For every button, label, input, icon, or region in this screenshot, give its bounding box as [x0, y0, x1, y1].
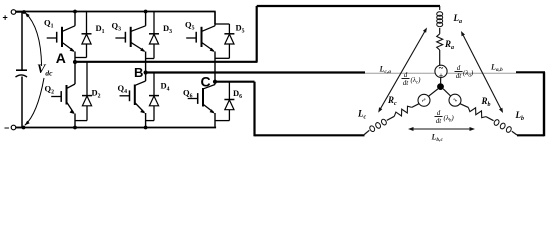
source ec — [418, 94, 430, 106]
resistor Ra — [437, 34, 443, 50]
curved lead to - terminal — [25, 78, 44, 125]
wire Lb end — [512, 131, 517, 135]
diode D6 — [228, 82, 230, 100]
transistor Q1 — [74, 12, 76, 26]
label d/dt lambda_b — [435, 116, 443, 118]
transistor Q5 — [214, 12, 216, 26]
transistor Q4 — [145, 73, 147, 82]
wire eb to Rb — [460, 104, 469, 108]
DC negative terminal — [11, 125, 16, 130]
wire DC link lower — [21, 77, 23, 128]
diode D3 — [153, 12, 155, 34]
wire La to Ra — [439, 28, 441, 34]
svg-text:(λc): (λc) — [411, 76, 422, 85]
wire Lc end — [364, 130, 369, 134]
wire phase B — [146, 71, 365, 73]
diode D5 — [214, 12, 216, 25]
label d/dt lambda_a — [455, 71, 463, 73]
wire ec to Rc — [412, 104, 419, 108]
svg-text:d: d — [437, 109, 441, 117]
top DC rail — [16, 11, 216, 13]
mutual inductance line — [365, 72, 516, 74]
label d/dt lambda_c — [402, 78, 410, 80]
wire top terminal to bus — [16, 11, 24, 13]
transistor Q3 — [145, 12, 147, 26]
node neutral — [437, 83, 444, 90]
DC positive terminal — [11, 10, 16, 15]
svg-text:B: B — [134, 65, 143, 80]
wire neutral to ec — [429, 89, 438, 96]
node B — [144, 70, 148, 74]
inductor La — [437, 12, 443, 16]
diode D2 — [86, 62, 88, 96]
svg-text:A: A — [56, 50, 66, 66]
capacitor Vdc top plate — [16, 69, 27, 71]
wire phase A — [75, 61, 258, 63]
wire Rb to Lb — [486, 117, 494, 121]
transistor Q2 — [74, 62, 76, 84]
curved lead to + terminal — [25, 13, 42, 67]
wire phase B right section — [516, 71, 545, 73]
axis arrow c-a — [381, 32, 425, 109]
diode D1 — [86, 12, 88, 34]
node top rail leg 2 — [144, 10, 148, 14]
wire DC link upper — [21, 12, 23, 70]
svg-text:+: + — [3, 13, 8, 23]
node bottom-left junction — [22, 126, 26, 130]
inductor Lc — [381, 118, 388, 125]
wire to La — [439, 6, 441, 10]
bottom DC rail — [16, 127, 216, 129]
node top-left junction — [22, 10, 26, 14]
wire neutral to eb — [443, 89, 450, 96]
source ea — [435, 65, 447, 77]
wire Ra to ea — [439, 50, 441, 65]
transistor Q6 — [214, 82, 216, 85]
resistor Rb — [468, 107, 486, 117]
svg-text:d: d — [457, 64, 461, 72]
resistor Rc — [394, 106, 412, 116]
capacitor Vdc curved plate — [16, 75, 28, 77]
source eb — [449, 94, 461, 106]
wire ea to neutral — [440, 77, 442, 83]
wire bottom terminal to bus — [16, 127, 24, 129]
wire phase C — [215, 81, 255, 83]
inductor Lb — [493, 119, 500, 126]
node top rail leg 1 — [73, 10, 77, 14]
node bottom rail leg 1 — [73, 126, 77, 130]
svg-text:d: d — [404, 71, 408, 79]
wire Rc to Lc — [387, 116, 395, 120]
diode D4 — [153, 73, 155, 96]
axis arrow a-b — [463, 36, 501, 109]
node C — [213, 80, 217, 84]
mutual inductance arrow Lbc — [411, 128, 473, 130]
svg-text:−: − — [4, 123, 9, 133]
node bottom rail leg 2 — [144, 126, 148, 130]
node A — [73, 60, 77, 64]
